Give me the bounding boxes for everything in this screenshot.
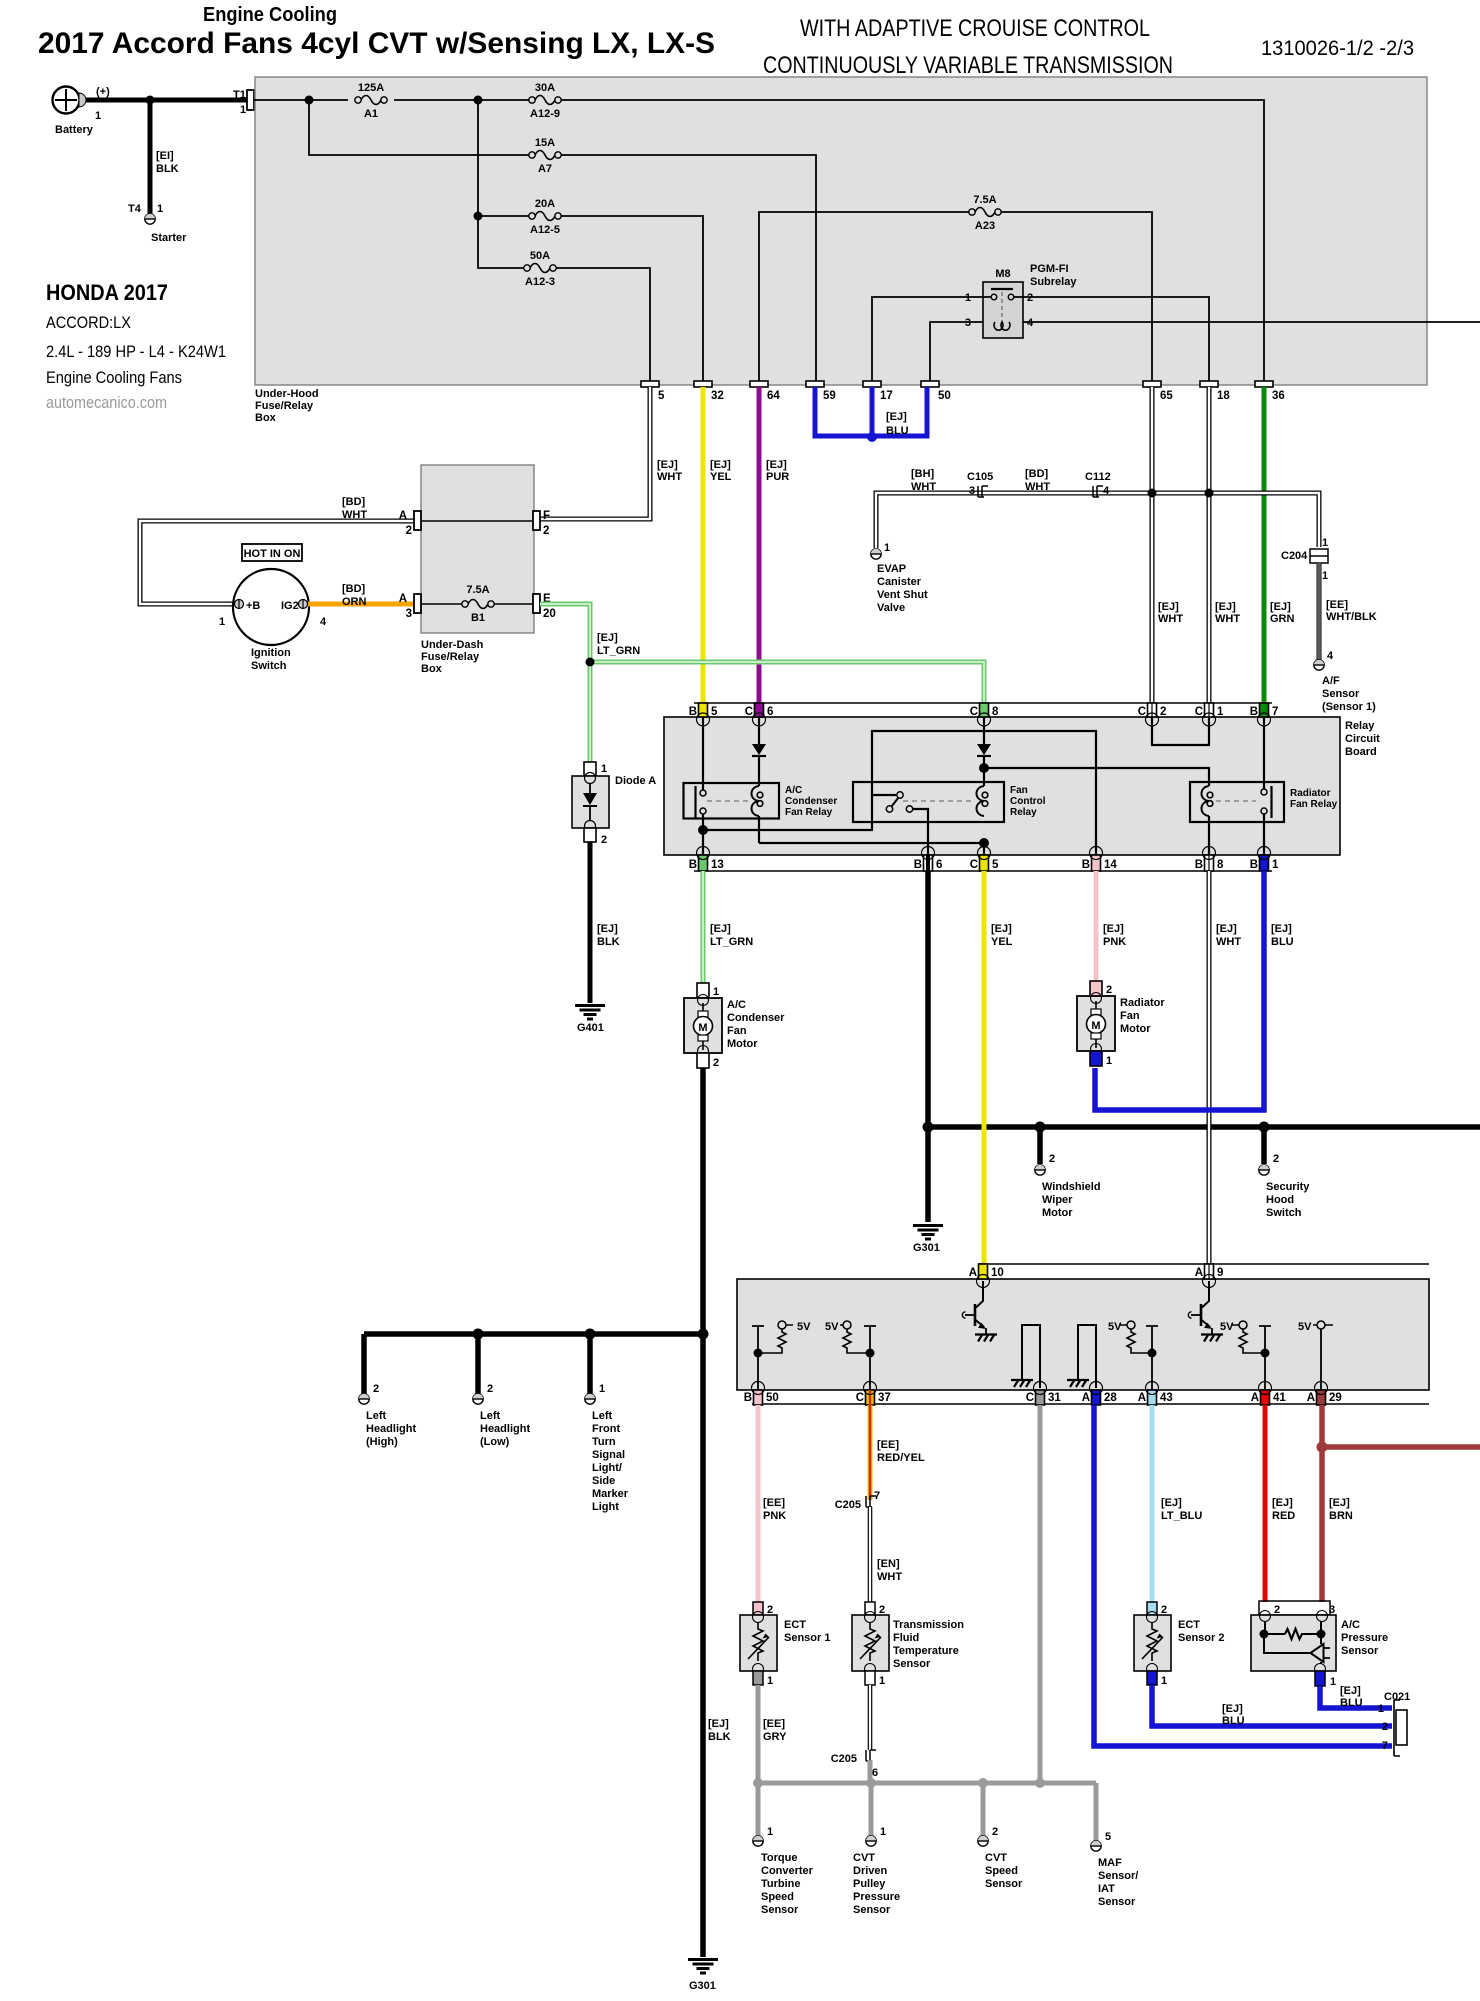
svg-text:10: 10 bbox=[991, 1267, 1004, 1279]
wire coil bottom to C5 node bbox=[759, 842, 984, 844]
svg-text:LT_GRN: LT_GRN bbox=[597, 645, 640, 657]
svg-text:Condenser: Condenser bbox=[727, 1012, 785, 1024]
svg-text:RED/YEL: RED/YEL bbox=[877, 1452, 925, 1464]
svg-text:7.5A: 7.5A bbox=[973, 194, 996, 206]
wire [EE] WHT/BLK C204 to A/F sensor bbox=[1319, 563, 1377, 660]
torque converter turbine speed sensor terminal 1 bbox=[753, 1826, 814, 1916]
svg-text:[BD]: [BD] bbox=[342, 583, 366, 595]
svg-text:A7: A7 bbox=[538, 163, 552, 175]
svg-text:7.5A: 7.5A bbox=[466, 584, 489, 596]
wire [EJ] LT_GRN B13 to fan motor bbox=[703, 871, 753, 985]
svg-text:1: 1 bbox=[157, 203, 163, 215]
connector strip top bbox=[978, 1263, 1429, 1265]
wire 20A row bbox=[478, 100, 703, 381]
svg-text:T1: T1 bbox=[233, 89, 246, 101]
wire A3 to fuse B1 to E20 bbox=[421, 603, 533, 605]
svg-text:A: A bbox=[969, 1267, 977, 1279]
pin B7 bbox=[1250, 703, 1279, 726]
svg-text:6: 6 bbox=[936, 859, 942, 871]
svg-text:[EI]: [EI] bbox=[156, 150, 174, 162]
svg-text:[EJ]: [EJ] bbox=[1216, 923, 1237, 935]
svg-text:[EJ]: [EJ] bbox=[991, 923, 1012, 935]
svg-text:32: 32 bbox=[711, 390, 724, 402]
svg-text:[EJ]: [EJ] bbox=[1340, 1685, 1361, 1697]
svg-text:Ignition: Ignition bbox=[251, 647, 291, 659]
svg-text:5: 5 bbox=[711, 706, 718, 718]
junction turn signal bbox=[585, 1329, 596, 1340]
wire [EE] PNK B50 to ECT1 bbox=[758, 1405, 786, 1602]
junction node C5 bbox=[979, 838, 989, 848]
svg-text:Motor: Motor bbox=[727, 1038, 758, 1050]
svg-text:ECT: ECT bbox=[1178, 1619, 1200, 1631]
svg-text:A: A bbox=[1307, 1392, 1315, 1404]
svg-text:[EE]: [EE] bbox=[877, 1439, 899, 1451]
fan control relay bbox=[853, 782, 1046, 822]
connector C105 pin 3 bbox=[967, 471, 993, 497]
svg-text:1: 1 bbox=[1272, 859, 1279, 871]
svg-text:B: B bbox=[744, 1392, 752, 1404]
svg-text:C: C bbox=[1195, 706, 1203, 718]
wire M8 pin2 to 18 bbox=[1014, 297, 1209, 381]
svg-text:GRY: GRY bbox=[763, 1731, 787, 1743]
svg-text:Pressure: Pressure bbox=[853, 1891, 900, 1903]
svg-text:PUR: PUR bbox=[766, 471, 789, 483]
svg-text:Subrelay: Subrelay bbox=[1030, 276, 1077, 288]
wire [EJ] BLU pressure sensor to C021 pin1 bbox=[1320, 1685, 1392, 1709]
svg-text:Box: Box bbox=[255, 412, 277, 424]
wire [EI] BLK to starter bbox=[148, 100, 153, 214]
svg-text:YEL: YEL bbox=[710, 471, 732, 483]
5V source at A29 bbox=[1298, 1321, 1333, 1390]
svg-text:[EJ]: [EJ] bbox=[766, 459, 787, 471]
connector tab 65 bbox=[1143, 381, 1173, 402]
svg-text:B: B bbox=[1082, 859, 1090, 871]
svg-text:Temperature: Temperature bbox=[893, 1645, 959, 1657]
connector tab 50 bbox=[921, 381, 951, 402]
junction node main/20A bbox=[474, 96, 483, 105]
svg-text:Fan Relay: Fan Relay bbox=[785, 807, 833, 818]
connector C205 pin 7 bbox=[835, 1490, 880, 1511]
svg-text:[EJ]: [EJ] bbox=[597, 632, 618, 644]
junction evap/65 wire bbox=[1148, 489, 1157, 498]
svg-text:2: 2 bbox=[406, 525, 412, 537]
under-hood fuse/relay box bbox=[255, 77, 1427, 385]
fuse 15A A7 bbox=[529, 137, 561, 175]
pin A29 bbox=[1307, 1382, 1342, 1406]
svg-text:M: M bbox=[698, 1022, 707, 1034]
svg-text:WHT: WHT bbox=[911, 481, 936, 493]
svg-text:[EJ]: [EJ] bbox=[1161, 1497, 1182, 1509]
svg-text:2: 2 bbox=[879, 1604, 885, 1616]
svg-text:50A: 50A bbox=[530, 250, 550, 262]
svg-text:C112: C112 bbox=[1085, 471, 1111, 483]
svg-text:A: A bbox=[399, 593, 407, 605]
radiator fan relay bbox=[1190, 782, 1338, 822]
svg-text:Starter: Starter bbox=[151, 232, 187, 244]
svg-text:1: 1 bbox=[219, 616, 225, 628]
svg-text:Left: Left bbox=[592, 1410, 613, 1422]
svg-text:1: 1 bbox=[95, 110, 101, 122]
svg-text:59: 59 bbox=[823, 390, 836, 402]
svg-text:MAF: MAF bbox=[1098, 1857, 1122, 1869]
svg-text:1: 1 bbox=[767, 1675, 773, 1687]
relay M8 PGM-FI Subrelay bbox=[965, 263, 1077, 338]
svg-text:B: B bbox=[1250, 706, 1258, 718]
pin C37 bbox=[856, 1382, 891, 1406]
svg-text:9: 9 bbox=[1217, 1267, 1223, 1279]
a/c condenser fan motor bbox=[684, 983, 785, 1069]
wire main feed y=100 bbox=[254, 100, 1264, 381]
connector tab 59 bbox=[806, 381, 836, 402]
svg-text:13: 13 bbox=[711, 859, 724, 871]
svg-text:1: 1 bbox=[879, 1675, 885, 1687]
svg-text:6: 6 bbox=[767, 706, 773, 718]
pin B13 bbox=[689, 847, 724, 872]
svg-text:WHT: WHT bbox=[342, 509, 367, 521]
label [BH] WHT bbox=[911, 468, 936, 493]
svg-text:2: 2 bbox=[1274, 1604, 1280, 1616]
connector tab 5 bbox=[641, 381, 665, 402]
svg-text:1: 1 bbox=[601, 763, 607, 775]
pin E20 bbox=[533, 593, 556, 620]
svg-text:30A: 30A bbox=[535, 82, 555, 94]
svg-text:Light/: Light/ bbox=[592, 1462, 622, 1474]
junction node main/15A bbox=[305, 96, 314, 105]
svg-text:1: 1 bbox=[1378, 1703, 1384, 1715]
CVT driven pulley pressure sensor terminal 1 bbox=[853, 1826, 900, 1916]
svg-text:2017 Accord Fans 4cyl CVT w/Se: 2017 Accord Fans 4cyl CVT w/Sensing LX, … bbox=[38, 27, 715, 60]
svg-text:65: 65 bbox=[1160, 390, 1173, 402]
svg-text:Sensor: Sensor bbox=[853, 1904, 891, 1916]
svg-text:1: 1 bbox=[880, 1826, 886, 1838]
wire fan control contact to B6 bbox=[913, 809, 928, 855]
svg-text:Pressure: Pressure bbox=[1341, 1632, 1388, 1644]
5V pullup at C37 bbox=[825, 1321, 876, 1390]
svg-text:4: 4 bbox=[1027, 317, 1034, 329]
svg-text:1: 1 bbox=[767, 1826, 773, 1838]
wire [EJ] WHT from 65 to C2 bbox=[1152, 387, 1183, 717]
pin B50 bbox=[744, 1382, 779, 1406]
svg-text:(Low): (Low) bbox=[480, 1436, 510, 1448]
svg-text:A: A bbox=[1251, 1392, 1259, 1404]
svg-text:Driven: Driven bbox=[853, 1865, 888, 1877]
svg-text:1: 1 bbox=[713, 986, 719, 998]
fuse 50A A12-3 bbox=[524, 250, 556, 288]
svg-text:Fan Relay: Fan Relay bbox=[1290, 799, 1338, 810]
connector C205 pin 6 bbox=[831, 1750, 878, 1779]
svg-text:C105: C105 bbox=[967, 471, 993, 483]
svg-text:[EJ]: [EJ] bbox=[1270, 601, 1291, 613]
svg-text:Marker: Marker bbox=[592, 1488, 629, 1500]
svg-text:[BD]: [BD] bbox=[342, 496, 366, 508]
svg-text:T4: T4 bbox=[128, 203, 142, 215]
radiator fan motor bbox=[1077, 981, 1165, 1067]
svg-text:43: 43 bbox=[1160, 1392, 1173, 1404]
svg-text:[EJ]: [EJ] bbox=[1103, 923, 1124, 935]
svg-text:1: 1 bbox=[599, 1383, 605, 1395]
svg-text:3: 3 bbox=[1329, 1604, 1335, 1616]
svg-text:Radiator: Radiator bbox=[1120, 997, 1165, 1009]
svg-text:WHT: WHT bbox=[1025, 481, 1050, 493]
svg-text:BLK: BLK bbox=[156, 163, 179, 175]
svg-text:Engine Cooling: Engine Cooling bbox=[203, 4, 337, 26]
svg-text:A: A bbox=[1082, 1392, 1090, 1404]
svg-text:[EJ]: [EJ] bbox=[1272, 1497, 1293, 1509]
svg-text:G401: G401 bbox=[577, 1022, 604, 1034]
svg-text:F: F bbox=[543, 510, 550, 522]
svg-text:Sensor 2: Sensor 2 bbox=[1178, 1632, 1224, 1644]
wire to radiator relay coil bbox=[984, 768, 1209, 855]
wire [EJ] GRN from 36 to B7 bbox=[1264, 387, 1295, 717]
ground loop at C31 bbox=[1011, 1325, 1040, 1388]
svg-text:2: 2 bbox=[1160, 706, 1166, 718]
wire [EJ] WHT from 18 to C1 bbox=[1209, 387, 1240, 717]
wire M8 pin1 to 17 bbox=[872, 297, 991, 381]
svg-text:Windshield: Windshield bbox=[1042, 1181, 1101, 1193]
wire [BD] ORN IG2 to A3 bbox=[308, 583, 414, 608]
ground G401 bbox=[575, 1006, 605, 1035]
wire [EJ] WHT B8 to A9 bbox=[1209, 871, 1241, 1279]
wire C6 coil branch with diode bbox=[758, 717, 760, 843]
svg-text:29: 29 bbox=[1329, 1392, 1342, 1404]
ignition switch bbox=[219, 569, 327, 672]
svg-text:[EN]: [EN] bbox=[877, 1558, 900, 1570]
svg-text:WHT: WHT bbox=[657, 471, 682, 483]
svg-text:[EJ]: [EJ] bbox=[597, 923, 618, 935]
svg-text:[EJ]: [EJ] bbox=[710, 923, 731, 935]
svg-text:8: 8 bbox=[992, 706, 999, 718]
svg-text:Light: Light bbox=[592, 1501, 619, 1513]
svg-text:Switch: Switch bbox=[1266, 1207, 1302, 1219]
junction motor wire bbox=[698, 1329, 709, 1340]
wire to security hood switch bbox=[1261, 1127, 1267, 1164]
pin A28 bbox=[1082, 1382, 1118, 1406]
svg-text:2: 2 bbox=[992, 1826, 998, 1838]
svg-text:(+): (+) bbox=[96, 86, 110, 98]
wire [EJ] LT_BLU A43 to ECT2 bbox=[1152, 1405, 1202, 1602]
junction LT_GRN node bbox=[586, 658, 595, 667]
svg-text:G301: G301 bbox=[689, 1980, 716, 1992]
svg-text:Canister: Canister bbox=[877, 576, 922, 588]
svg-text:8: 8 bbox=[1217, 859, 1224, 871]
svg-text:64: 64 bbox=[767, 390, 780, 402]
ECT sensor 1 bbox=[740, 1602, 830, 1687]
svg-text:2: 2 bbox=[767, 1604, 773, 1616]
svg-text:Under-Hood: Under-Hood bbox=[255, 388, 319, 400]
ECM/PCM box bbox=[737, 1279, 1429, 1390]
security hood switch terminal 2 bbox=[1259, 1153, 1310, 1219]
svg-text:GRN: GRN bbox=[1270, 613, 1295, 625]
svg-text:Front: Front bbox=[592, 1423, 620, 1435]
wire [EJ] BLK diode to G401 bbox=[590, 842, 620, 1003]
junction evap/18 wire bbox=[1205, 489, 1214, 498]
svg-text:C205: C205 bbox=[835, 1499, 861, 1511]
wire white over bus bbox=[1207, 1119, 1212, 1135]
svg-text:PNK: PNK bbox=[1103, 936, 1126, 948]
svg-text:IG2: IG2 bbox=[281, 600, 299, 612]
svg-text:2.4L - 189 HP - L4 - K24W1: 2.4L - 189 HP - L4 - K24W1 bbox=[46, 342, 226, 361]
svg-text:1: 1 bbox=[1161, 1675, 1167, 1687]
pin A3 bbox=[399, 593, 421, 620]
svg-text:LT_BLU: LT_BLU bbox=[1161, 1510, 1202, 1522]
svg-text:C021: C021 bbox=[1384, 1691, 1410, 1703]
connector tab 64 bbox=[750, 381, 780, 402]
wire [EJ] BLU B1 to radiator motor pin1 bbox=[1095, 871, 1294, 1110]
svg-text:[EJ]: [EJ] bbox=[1215, 601, 1236, 613]
svg-text:Torque: Torque bbox=[761, 1852, 797, 1864]
svg-text:B: B bbox=[689, 706, 697, 718]
svg-text:28: 28 bbox=[1104, 1392, 1117, 1404]
svg-text:Diode A: Diode A bbox=[615, 775, 656, 787]
svg-text:ECT: ECT bbox=[784, 1619, 806, 1631]
svg-text:B: B bbox=[1195, 859, 1203, 871]
svg-text:Motor: Motor bbox=[1120, 1023, 1151, 1035]
svg-text:Sensor: Sensor bbox=[1322, 688, 1360, 700]
svg-text:Left: Left bbox=[366, 1410, 387, 1422]
pin B1 bbox=[1250, 847, 1279, 872]
svg-text:Converter: Converter bbox=[761, 1865, 814, 1877]
pin A9 bbox=[1195, 1264, 1224, 1288]
svg-text:4: 4 bbox=[320, 616, 327, 628]
left headlight low terminal 2 bbox=[473, 1383, 531, 1448]
svg-text:1: 1 bbox=[1217, 706, 1224, 718]
svg-text:[EE]: [EE] bbox=[1326, 599, 1348, 611]
svg-text:Headlight: Headlight bbox=[480, 1423, 530, 1435]
svg-text:WITH ADAPTIVE CROUISE CONTROL: WITH ADAPTIVE CROUISE CONTROL bbox=[800, 15, 1150, 42]
svg-text:Relay: Relay bbox=[1345, 720, 1375, 732]
ground loop at A28 bbox=[1067, 1325, 1096, 1388]
5V pullup at A41 bbox=[1220, 1321, 1271, 1390]
svg-text:HOT IN ON: HOT IN ON bbox=[244, 548, 301, 560]
svg-text:[EJ]: [EJ] bbox=[886, 411, 907, 423]
svg-text:[EJ]: [EJ] bbox=[1329, 1497, 1350, 1509]
wire [EJ] BLU jumper 59-17-50 bbox=[815, 387, 927, 442]
svg-text:[EE]: [EE] bbox=[763, 1497, 785, 1509]
svg-text:5V: 5V bbox=[1108, 1321, 1122, 1333]
svg-text:Vent Shut: Vent Shut bbox=[877, 589, 928, 601]
wire [EJ] YEL from 32 to B5 bbox=[703, 387, 732, 717]
svg-text:(High): (High) bbox=[366, 1436, 398, 1448]
svg-text:YEL: YEL bbox=[991, 936, 1013, 948]
pin B5 bbox=[689, 703, 718, 726]
junction node radiator coil feed bbox=[979, 763, 989, 773]
wire [EJ] BLU A28 to C021 pin7 bbox=[1094, 1405, 1392, 1746]
junction node B13 bbox=[698, 825, 708, 835]
svg-text:WHT: WHT bbox=[1216, 936, 1241, 948]
pin C31 bbox=[1026, 1382, 1062, 1406]
wire M8 pin4 to right edge bbox=[1023, 321, 1480, 323]
svg-text:5V: 5V bbox=[797, 1321, 811, 1333]
svg-text:50: 50 bbox=[938, 390, 951, 402]
under-dash fuse/relay box bbox=[421, 465, 534, 675]
svg-text:125A: 125A bbox=[358, 82, 384, 94]
svg-text:Transmission: Transmission bbox=[893, 1619, 964, 1631]
5V pullup at A43 bbox=[1108, 1321, 1158, 1390]
svg-text:A/C: A/C bbox=[1341, 1619, 1360, 1631]
svg-text:BLU: BLU bbox=[1271, 936, 1294, 948]
svg-text:+B: +B bbox=[246, 600, 260, 612]
connector C021 bbox=[1378, 1691, 1410, 1756]
connector tab 36 bbox=[1255, 381, 1285, 402]
fuse 7.5A A23 bbox=[969, 194, 1001, 232]
svg-text:4: 4 bbox=[1327, 650, 1334, 662]
svg-text:Board: Board bbox=[1345, 746, 1377, 758]
svg-text:1: 1 bbox=[1106, 1055, 1112, 1067]
svg-text:BRN: BRN bbox=[1329, 1510, 1353, 1522]
left front turn signal light terminal 1 bbox=[585, 1383, 629, 1513]
svg-text:2: 2 bbox=[1027, 292, 1033, 304]
wire [EJ] LT_GRN from E20 to C8 and diode A bbox=[540, 604, 984, 762]
svg-text:17: 17 bbox=[880, 390, 893, 402]
svg-text:Speed: Speed bbox=[985, 1865, 1018, 1877]
svg-text:IAT: IAT bbox=[1098, 1883, 1115, 1895]
pin C8 bbox=[970, 703, 999, 726]
svg-text:A/C: A/C bbox=[727, 999, 746, 1011]
svg-text:A: A bbox=[1195, 1267, 1203, 1279]
svg-text:CVT: CVT bbox=[985, 1852, 1007, 1864]
svg-text:1310026-1/2 -2/3: 1310026-1/2 -2/3 bbox=[1261, 37, 1414, 60]
svg-text:Sensor/: Sensor/ bbox=[1098, 1870, 1138, 1882]
svg-text:CVT: CVT bbox=[853, 1852, 875, 1864]
svg-text:Fan: Fan bbox=[727, 1025, 747, 1037]
wire M8 pin3 to 50 bbox=[930, 322, 983, 381]
svg-text:20A: 20A bbox=[535, 198, 555, 210]
wire [EE] RED/YEL C37 to C205 bbox=[870, 1405, 925, 1500]
svg-text:A1: A1 bbox=[364, 108, 378, 120]
svg-text:C: C bbox=[745, 706, 753, 718]
svg-text:2: 2 bbox=[1049, 1153, 1055, 1165]
pin A43 bbox=[1138, 1382, 1173, 1406]
svg-text:37: 37 bbox=[878, 1392, 891, 1404]
svg-text:WHT/BLK: WHT/BLK bbox=[1326, 611, 1377, 623]
connector strip top bbox=[694, 702, 1272, 704]
wire 50A row bbox=[478, 216, 650, 381]
svg-text:6: 6 bbox=[872, 1767, 878, 1779]
junction node G301 bbox=[923, 1122, 934, 1133]
pin B8 bbox=[1195, 847, 1224, 872]
svg-text:Relay: Relay bbox=[1010, 807, 1037, 818]
pin A2 bbox=[399, 510, 421, 537]
wire [EE] GRY labels bbox=[708, 1718, 731, 1743]
svg-text:2: 2 bbox=[1273, 1153, 1279, 1165]
svg-text:Left: Left bbox=[480, 1410, 501, 1422]
svg-text:31: 31 bbox=[1048, 1392, 1061, 1404]
wire BLK headlight bus bbox=[364, 1334, 703, 1394]
fuse 7.5A B1 bbox=[462, 584, 494, 624]
wire [BH]/[BD] WHT evap net bbox=[876, 493, 1319, 548]
svg-text:PGM-FI: PGM-FI bbox=[1030, 263, 1069, 275]
A/F sensor terminal 4 bbox=[1314, 650, 1376, 713]
svg-text:[EE]: [EE] bbox=[763, 1718, 785, 1730]
pin B14 bbox=[1082, 847, 1118, 872]
svg-text:C205: C205 bbox=[831, 1753, 857, 1765]
svg-text:Engine Cooling Fans: Engine Cooling Fans bbox=[46, 368, 182, 387]
svg-text:BLU: BLU bbox=[1222, 1715, 1245, 1727]
wire B7 to radiator contact to B1 bbox=[1263, 717, 1265, 855]
svg-text:Security: Security bbox=[1266, 1181, 1310, 1193]
ground G301 bbox=[913, 1226, 943, 1255]
svg-text:Hood: Hood bbox=[1266, 1194, 1294, 1206]
svg-text:A12-3: A12-3 bbox=[525, 276, 555, 288]
svg-text:[EJ]: [EJ] bbox=[708, 1718, 729, 1730]
starter terminal T4 bbox=[128, 203, 187, 244]
wire B13 bus to fan control contact feed bbox=[703, 731, 1096, 855]
transmission fluid temperature sensor bbox=[852, 1602, 964, 1687]
wire B5 to contact bbox=[702, 717, 704, 855]
svg-text:5V: 5V bbox=[825, 1321, 839, 1333]
svg-text:[EJ]: [EJ] bbox=[1222, 1703, 1243, 1715]
svg-text:50: 50 bbox=[766, 1392, 779, 1404]
